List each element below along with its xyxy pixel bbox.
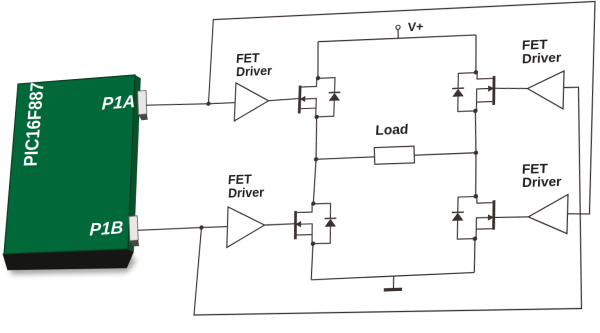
wire node A to U2 input — [208, 103, 235, 104]
wire U3 output to Q2 gate — [265, 224, 296, 225]
FET driver U5 (bottom-right) (buffer triangle) — [527, 194, 568, 234]
microcontroller U1 PIC16F887 package bottom/side face — [1, 249, 134, 271]
wire bottom rail — [311, 272, 474, 279]
svg-text:Driver: Driver — [522, 50, 562, 67]
V+ terminal circle — [396, 25, 400, 29]
wire right leg top — [474, 35, 478, 73]
wire left leg mid (Q1 source to Q2 drain) — [312, 117, 319, 204]
junction load right — [474, 150, 479, 155]
wire V+ top rail — [318, 35, 476, 42]
U1 package top face — [4, 75, 140, 254]
wire right leg bottom — [473, 239, 476, 273]
svg-text:Driver: Driver — [228, 185, 265, 201]
svg-text:P1B: P1B — [89, 217, 123, 239]
wire U5 output to Q4 gate — [495, 217, 528, 218]
transistor Q1 high-side left (n-channel MOSFET with body diode) — [298, 77, 341, 117]
wire load rail — [316, 153, 476, 160]
junction Q2 source — [311, 241, 316, 245]
pin P1B tab — [127, 216, 140, 241]
wire left leg bottom — [311, 244, 314, 280]
wire V+ stem — [397, 29, 398, 38]
transistor Q2 low-side left (n-channel MOSFET with body diode) — [294, 203, 336, 244]
wire U4 output to Q3 gate — [495, 87, 528, 90]
transistor Q3 high-side right (n-channel MOSFET with body diode) — [452, 72, 496, 112]
load resistor box — [373, 146, 415, 164]
svg-text:P1A: P1A — [101, 92, 135, 114]
FET driver U4 (top-right) (buffer triangle) — [526, 71, 564, 110]
junction Q4 drain — [473, 194, 478, 199]
junction Q1 drain — [316, 76, 321, 80]
FET driver U3 (bottom-left) (buffer triangle) — [225, 206, 265, 248]
wire ground stem — [393, 276, 394, 288]
svg-text:Load: Load — [375, 121, 409, 138]
wire P1B pin to node B — [138, 228, 202, 231]
node B (P1B junction) — [199, 225, 204, 229]
junction Q1 source — [314, 115, 319, 119]
wire P1A pin to node A — [146, 103, 209, 106]
junction Q4 source — [473, 236, 478, 241]
node A (P1A junction) — [206, 102, 210, 106]
svg-text:V+: V+ — [407, 20, 424, 34]
svg-text:Driver: Driver — [522, 174, 562, 190]
wire P1B net: down, across bottom, up inner right into U4 input — [194, 86, 591, 315]
wire U2 output to Q1 gate — [269, 99, 299, 101]
wire left leg top — [316, 42, 320, 79]
U1 right side face — [123, 75, 146, 253]
wire right leg mid (Q3 source to Q4 drain) — [471, 111, 480, 197]
pin P1A tab — [136, 90, 149, 115]
FET driver U2 (top-left) (buffer triangle) — [234, 82, 270, 121]
junction Q3 drain — [474, 70, 479, 75]
transistor Q4 low-side right (n-channel MOSFET with body diode) — [451, 196, 495, 240]
junction Q2 drain — [311, 201, 316, 205]
wire P1A net: up, across top, down right edge into U5 input — [200, 1, 599, 224]
wire node B to U3 input — [201, 226, 227, 229]
ground symbol — [384, 288, 402, 292]
svg-text:Driver: Driver — [236, 63, 273, 79]
junction load left — [314, 157, 319, 161]
junction Q3 source — [473, 109, 478, 114]
